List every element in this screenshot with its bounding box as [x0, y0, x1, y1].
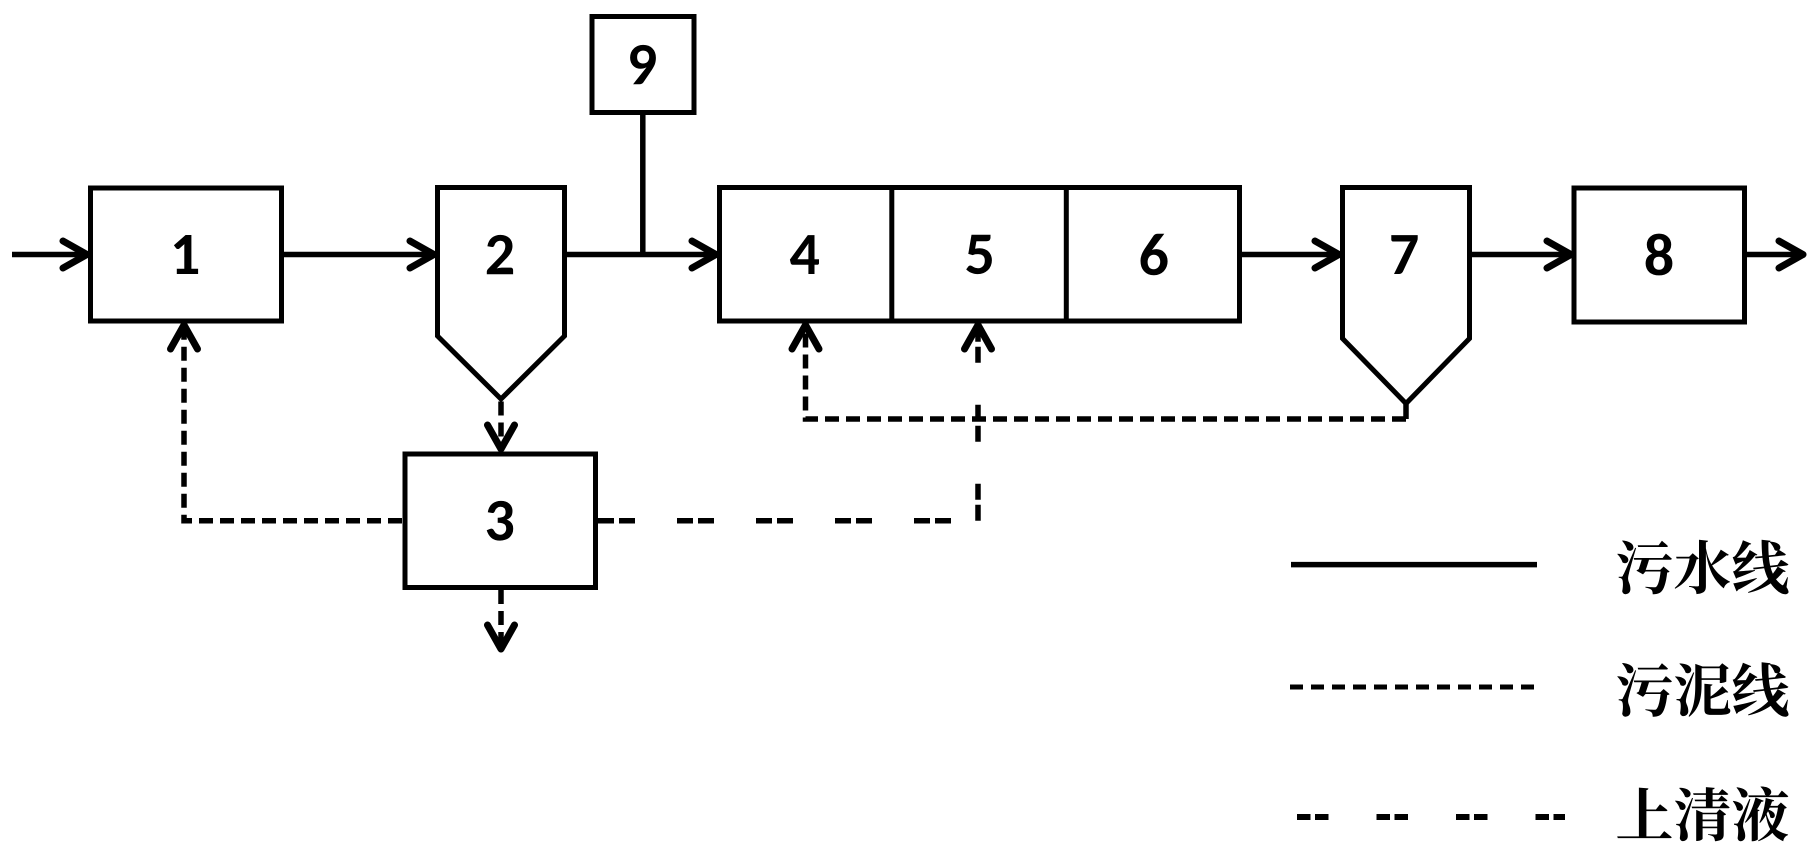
- wire: box8 effluent: [1747, 252, 1801, 258]
- box 7 (hopper): [1343, 188, 1470, 404]
- wire: box7 to box8: [1472, 252, 1569, 258]
- wire: box2 apex to box3 (sludge): [498, 402, 504, 445]
- box 4-5-6 group: [720, 188, 1240, 322]
- box 2 (hopper): [438, 188, 565, 400]
- wire: box6 to box7: [1242, 252, 1337, 258]
- wire: box3 to box1 return (sludge): [184, 331, 402, 521]
- legend: solid sewage line sample: [1291, 562, 1537, 568]
- label 8: [1646, 234, 1673, 276]
- label 4: [790, 235, 819, 274]
- divider 5|6: [1064, 188, 1069, 322]
- label 2: [487, 235, 513, 274]
- divider 4|5: [889, 188, 894, 322]
- label 9: [630, 45, 656, 84]
- wire: box 9 stem: [640, 113, 646, 255]
- wire: box7 to box4 return (sludge): [806, 331, 1407, 419]
- box 3: [405, 454, 596, 588]
- label 3: [487, 501, 514, 541]
- legend: long-dash supernatant sample: [1297, 814, 1565, 820]
- box 9: [592, 17, 694, 113]
- wire: box7 apex stub: [1403, 404, 1409, 420]
- wire: box1 to box2: [284, 252, 432, 258]
- label 7: [1391, 235, 1417, 274]
- legend: dashed sludge line sample: [1290, 685, 1537, 690]
- wire: box3 waste sludge out: [498, 590, 504, 643]
- legend: label 上清液: [1617, 788, 1672, 839]
- legend: label 污泥线: [1617, 663, 1672, 717]
- label 1: [174, 235, 198, 274]
- box 8: [1574, 188, 1745, 322]
- wire: influent arrow: [12, 252, 85, 258]
- wire: box3 to box5 supernatant: [598, 331, 978, 521]
- label 5: [966, 235, 992, 274]
- legend: label 污水线: [1617, 541, 1672, 595]
- wire: box2 to box4: [567, 252, 714, 258]
- box 1: [91, 188, 282, 321]
- label 6: [1141, 234, 1168, 275]
